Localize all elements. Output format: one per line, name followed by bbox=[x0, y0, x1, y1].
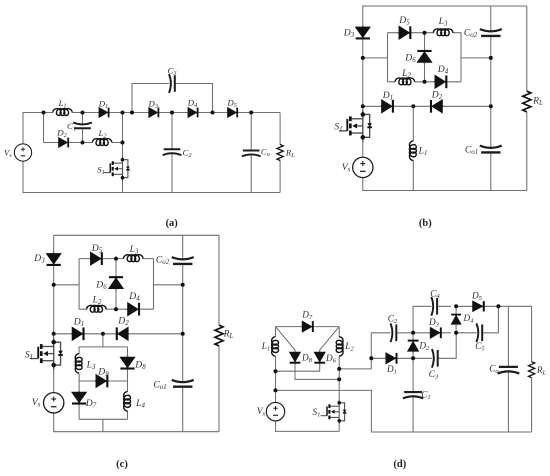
node c6 bbox=[181, 283, 185, 287]
node n9 bbox=[121, 141, 125, 145]
capacitor Co1 bbox=[480, 146, 502, 153]
node dots bbox=[42, 111, 254, 145]
svg-text:D8: D8 bbox=[301, 353, 313, 365]
wire bottom rail bbox=[23, 161, 280, 192]
diode D3 bbox=[46, 252, 62, 266]
mosfet S1 bbox=[339, 110, 372, 142]
wire bottom left rail bbox=[276, 421, 340, 432]
inductor L3 bbox=[433, 29, 452, 36]
wire lower branch to D2 bbox=[44, 142, 58, 144]
wire top edge left of D7 bbox=[276, 326, 302, 328]
mosfet S1 bbox=[30, 338, 63, 370]
resistor RL bbox=[277, 145, 283, 161]
wire D1 row bbox=[54, 333, 183, 335]
diode D1 bbox=[384, 352, 397, 364]
wire lower branch L2 to switch node bbox=[112, 142, 123, 144]
svg-text:Co: Co bbox=[261, 146, 270, 158]
diode D5 bbox=[89, 251, 103, 266]
wire diagonal to D6 bbox=[320, 327, 340, 352]
wire top rail: D5 to right corner bbox=[238, 112, 281, 114]
svg-text:D3: D3 bbox=[148, 98, 159, 110]
mosfet S1 bbox=[104, 156, 130, 181]
diode D8 bbox=[289, 351, 301, 364]
diode D7 bbox=[301, 320, 314, 332]
wire diagonal to D8 bbox=[276, 327, 296, 352]
wire lower branch D2 to L2 bbox=[69, 142, 93, 144]
svg-text:L1: L1 bbox=[261, 341, 270, 353]
wire Co stubs bbox=[250, 113, 252, 193]
node b1 bbox=[361, 56, 365, 60]
svg-text:D2: D2 bbox=[418, 341, 430, 353]
svg-text:D3: D3 bbox=[33, 253, 45, 265]
svg-text:D1: D1 bbox=[386, 364, 397, 376]
wire S1 source to ground bbox=[122, 181, 124, 192]
capacitor C4 bbox=[431, 297, 437, 316]
diode D2 bbox=[57, 137, 69, 148]
wire net left stubs bbox=[78, 347, 80, 419]
svg-text:L2: L2 bbox=[401, 68, 411, 80]
wire L1 branch bbox=[412, 106, 414, 190]
diode D4 bbox=[451, 314, 462, 326]
wire left branch D3 to S1 bbox=[362, 39, 364, 110]
svg-text:C5: C5 bbox=[475, 341, 485, 353]
node dots bbox=[52, 257, 185, 336]
node b7 bbox=[489, 104, 493, 108]
svg-text:(a): (a) bbox=[166, 218, 179, 229]
diode D3 bbox=[355, 25, 371, 39]
svg-text:D4: D4 bbox=[187, 98, 198, 110]
inductor L1 bbox=[53, 109, 72, 116]
node n3 bbox=[121, 111, 125, 115]
wire row B segments bbox=[371, 333, 456, 359]
diode D1 bbox=[71, 327, 85, 342]
capacitor Co1 bbox=[172, 380, 194, 387]
wire top rail: L1 to D1 bbox=[72, 112, 98, 114]
wire S1 to Vs bbox=[53, 370, 55, 393]
node d1 bbox=[274, 369, 278, 373]
capacitor C1 bbox=[403, 392, 423, 398]
node c2 bbox=[52, 332, 56, 336]
wire right branch below RL bbox=[279, 160, 281, 192]
svg-text:L2: L2 bbox=[97, 128, 107, 140]
diode D2 bbox=[116, 327, 130, 342]
wire C1 top stub bbox=[82, 113, 84, 126]
svg-text:D9: D9 bbox=[97, 367, 109, 379]
node b4 bbox=[423, 80, 427, 84]
node n6 bbox=[211, 111, 215, 115]
node n1 bbox=[42, 111, 46, 115]
node c7 bbox=[181, 332, 185, 336]
wire Co2 branch bbox=[490, 6, 492, 191]
svg-text:(b): (b) bbox=[419, 218, 432, 229]
capacitor C2 bbox=[391, 323, 397, 342]
svg-text:L1: L1 bbox=[418, 145, 428, 157]
capacitor Co2 bbox=[172, 257, 194, 264]
wire box left edge bbox=[387, 33, 389, 82]
svg-text:L4: L4 bbox=[135, 398, 145, 410]
wire S1 to Vs bbox=[362, 142, 364, 158]
svg-text:D5: D5 bbox=[398, 15, 410, 27]
svg-text:L2: L2 bbox=[92, 294, 102, 306]
node d2 bbox=[274, 388, 278, 392]
svg-text:D7: D7 bbox=[301, 310, 313, 322]
wire top rail bbox=[54, 235, 219, 253]
wire net right stubs bbox=[127, 347, 129, 419]
diode D2 bbox=[407, 340, 419, 353]
svg-text:RL: RL bbox=[536, 365, 547, 377]
SUBFIGURE D bbox=[257, 289, 547, 471]
wire D6 stubs bbox=[115, 259, 117, 310]
node c3 bbox=[114, 257, 118, 261]
wire Co branch bbox=[507, 306, 509, 432]
source Vs bbox=[44, 393, 64, 413]
node b6 bbox=[489, 56, 493, 60]
wire L2 branch top bbox=[338, 327, 340, 337]
node n8 bbox=[81, 141, 85, 145]
node d6 bbox=[411, 331, 415, 335]
wire bottom rail bbox=[54, 413, 219, 432]
wire top rail: D1 to D3 bbox=[109, 112, 148, 114]
svg-text:RL: RL bbox=[532, 95, 543, 107]
wire switch node down bbox=[102, 334, 104, 347]
node c1 bbox=[52, 283, 56, 287]
wire box left edge bbox=[78, 259, 80, 310]
svg-text:C2: C2 bbox=[388, 314, 398, 326]
wire C1 column bbox=[412, 358, 414, 432]
svg-text:D1: D1 bbox=[98, 99, 109, 111]
wire mid stub right bbox=[154, 284, 183, 286]
svg-text:D3: D3 bbox=[343, 27, 355, 39]
svg-text:S1: S1 bbox=[334, 121, 342, 133]
wire net bottom edge bbox=[79, 418, 127, 420]
wire D5 row bbox=[388, 32, 462, 34]
inductor L1 bbox=[409, 141, 416, 160]
svg-text:Vs: Vs bbox=[32, 397, 41, 409]
SUBFIGURE A bbox=[4, 66, 295, 229]
wire RL branch bbox=[218, 235, 220, 431]
wire net bottom stub bbox=[102, 419, 104, 431]
inductor L2 bbox=[92, 139, 111, 146]
diode D5 bbox=[471, 300, 485, 312]
wire D6 stubs bbox=[424, 33, 426, 82]
wire ground bus bbox=[276, 390, 532, 432]
svg-text:D3: D3 bbox=[428, 317, 440, 329]
wire C3 loop bbox=[132, 84, 213, 113]
wire switch node vertical bbox=[122, 113, 124, 157]
inductor L3b bbox=[75, 354, 82, 373]
diode D4 bbox=[126, 302, 140, 317]
capacitor Co bbox=[242, 151, 261, 157]
svg-text:Vs: Vs bbox=[257, 406, 266, 418]
wire L2 branch to S1 bbox=[338, 356, 340, 399]
svg-text:D2: D2 bbox=[117, 316, 129, 328]
node d9 bbox=[454, 331, 458, 335]
inductor L1 bbox=[272, 337, 279, 356]
SUBFIGURE C bbox=[25, 235, 234, 470]
svg-text:L2: L2 bbox=[344, 341, 354, 353]
wire L2 node up link bbox=[339, 333, 371, 369]
svg-text:C3: C3 bbox=[429, 369, 439, 381]
resistor RL bbox=[529, 362, 535, 378]
wire C1 bottom stub bbox=[82, 128, 84, 142]
node c5 bbox=[101, 332, 105, 336]
svg-text:Co2: Co2 bbox=[464, 27, 478, 39]
diode D3 bbox=[147, 107, 159, 118]
capacitor C2 bbox=[163, 149, 182, 155]
capacitor Co2 bbox=[480, 29, 502, 36]
wire box right edge bbox=[460, 33, 462, 82]
wire top rail: D3 to D4 bbox=[159, 112, 188, 114]
svg-text:D7: D7 bbox=[85, 398, 97, 410]
diode D6 bbox=[314, 351, 326, 364]
wire D1 row bbox=[363, 105, 491, 107]
wire Co2 branch bbox=[182, 235, 184, 431]
diode D4 bbox=[433, 75, 447, 90]
mosfet S1 bbox=[321, 399, 347, 424]
resistor RL bbox=[215, 325, 223, 346]
diode D6 bbox=[416, 50, 432, 64]
svg-text:C3: C3 bbox=[167, 66, 176, 78]
node dots bbox=[361, 31, 493, 109]
wire L2 row bbox=[388, 81, 462, 83]
svg-text:L3: L3 bbox=[86, 359, 96, 371]
wire L2 row bbox=[79, 308, 153, 310]
wire RL branch bbox=[531, 306, 533, 432]
wire mid stub left bbox=[54, 284, 79, 286]
wire S1 source stub bbox=[338, 424, 340, 431]
inductor L2 bbox=[336, 337, 343, 356]
diode D6 bbox=[108, 276, 124, 290]
wire C2 stubs bbox=[171, 113, 173, 193]
svg-text:D8: D8 bbox=[134, 359, 146, 371]
diode D7 bbox=[71, 391, 87, 405]
wire node A down bbox=[43, 113, 45, 143]
node d4 bbox=[337, 377, 341, 381]
svg-text:Co: Co bbox=[489, 364, 499, 376]
wire left branch D3 to S1 bbox=[53, 265, 55, 338]
wire right branch above RL bbox=[279, 113, 281, 145]
source Vs bbox=[353, 157, 373, 177]
svg-text:L3: L3 bbox=[438, 16, 448, 28]
node c4 bbox=[114, 307, 118, 311]
wire D4 stubs bbox=[455, 306, 457, 333]
capacitor C1 bbox=[73, 123, 92, 129]
svg-text:D6: D6 bbox=[404, 53, 416, 65]
svg-text:D1: D1 bbox=[73, 317, 84, 329]
wire box right edge bbox=[153, 259, 155, 310]
svg-text:D6: D6 bbox=[95, 279, 107, 291]
wire D8 cathode link bbox=[295, 363, 339, 380]
svg-text:(d): (d) bbox=[393, 459, 406, 470]
wire L1 branch top bbox=[275, 327, 277, 337]
node d5 bbox=[369, 356, 373, 360]
svg-text:RL: RL bbox=[223, 328, 234, 340]
wire D5 row bbox=[79, 258, 153, 260]
svg-text:C4: C4 bbox=[430, 289, 440, 301]
svg-text:D4: D4 bbox=[463, 313, 475, 325]
svg-text:D5: D5 bbox=[226, 98, 237, 110]
svg-text:Co1: Co1 bbox=[153, 379, 166, 391]
wire L1 branch to Vs bbox=[275, 356, 277, 402]
svg-text:S1: S1 bbox=[25, 349, 33, 361]
wire top rail bbox=[363, 6, 527, 27]
svg-text:S1: S1 bbox=[313, 407, 321, 419]
node d8 bbox=[454, 304, 458, 308]
diode D5 bbox=[226, 107, 238, 118]
capacitor C3 bbox=[169, 74, 175, 93]
inductor L4 bbox=[124, 392, 131, 411]
svg-text:D2: D2 bbox=[56, 128, 67, 140]
svg-text:D5: D5 bbox=[91, 243, 103, 255]
source Vs bbox=[266, 402, 284, 420]
diode D1 bbox=[98, 107, 110, 118]
svg-text:D4: D4 bbox=[437, 64, 449, 76]
node dots bbox=[274, 304, 501, 392]
svg-text:RL: RL bbox=[285, 147, 295, 159]
resistor RL bbox=[523, 91, 531, 112]
svg-text:S1: S1 bbox=[97, 164, 105, 176]
capacitor Co bbox=[498, 367, 520, 374]
svg-text:(c): (c) bbox=[116, 459, 128, 470]
diode D9 bbox=[94, 374, 108, 389]
svg-text:Vs: Vs bbox=[342, 162, 351, 174]
diode D5 bbox=[397, 25, 411, 40]
node d10 bbox=[496, 304, 500, 308]
capacitor C5 bbox=[476, 323, 482, 342]
svg-text:C1: C1 bbox=[421, 390, 430, 402]
node b5 bbox=[411, 104, 415, 108]
wire top rail: D4 to D5 bbox=[198, 112, 227, 114]
wire bottom rail bbox=[363, 178, 527, 191]
source Vs bbox=[14, 144, 31, 161]
svg-text:D2: D2 bbox=[431, 89, 443, 101]
diode D1 bbox=[380, 99, 394, 114]
node b3 bbox=[423, 31, 427, 35]
svg-text:D6: D6 bbox=[325, 353, 337, 365]
svg-text:Co2: Co2 bbox=[156, 254, 170, 266]
wire row T segments bbox=[413, 306, 531, 333]
svg-text:L3: L3 bbox=[129, 244, 139, 256]
svg-text:Co1: Co1 bbox=[465, 144, 478, 156]
diode D2 bbox=[430, 99, 444, 114]
wire D6 cathode link bbox=[276, 363, 320, 372]
inductor L2 bbox=[395, 78, 414, 85]
wire top edge right of D7 bbox=[313, 326, 340, 328]
node b2 bbox=[361, 104, 365, 108]
diode D4 bbox=[187, 107, 199, 118]
wire mid stub left bbox=[363, 57, 388, 59]
wire D9 row bbox=[79, 380, 127, 382]
node n2 bbox=[81, 111, 85, 115]
svg-text:L1: L1 bbox=[57, 98, 66, 110]
node n7 bbox=[249, 111, 253, 115]
diode D3 bbox=[429, 327, 442, 339]
SUBFIGURE B bbox=[334, 6, 543, 229]
wire RL branch bbox=[526, 6, 528, 191]
wire mid stub right bbox=[461, 57, 491, 59]
svg-text:Vs: Vs bbox=[4, 147, 12, 159]
svg-text:D1: D1 bbox=[382, 90, 393, 102]
inductor L2 bbox=[87, 305, 106, 312]
node d3 bbox=[337, 367, 341, 371]
svg-text:D5: D5 bbox=[471, 291, 483, 303]
node n5 bbox=[170, 111, 174, 115]
diode D8 bbox=[119, 356, 135, 370]
wire top rail left: Vs to L1 bbox=[23, 113, 53, 144]
node d7 bbox=[411, 356, 415, 360]
svg-text:C2: C2 bbox=[182, 147, 192, 159]
wire D2 stubs bbox=[412, 333, 414, 359]
inductor L3 bbox=[124, 255, 143, 262]
svg-text:D4: D4 bbox=[128, 291, 140, 303]
capacitor C3 bbox=[432, 349, 438, 368]
wire row M segments bbox=[371, 306, 498, 333]
node n4 bbox=[130, 111, 134, 115]
wire net top edge bbox=[79, 346, 127, 348]
